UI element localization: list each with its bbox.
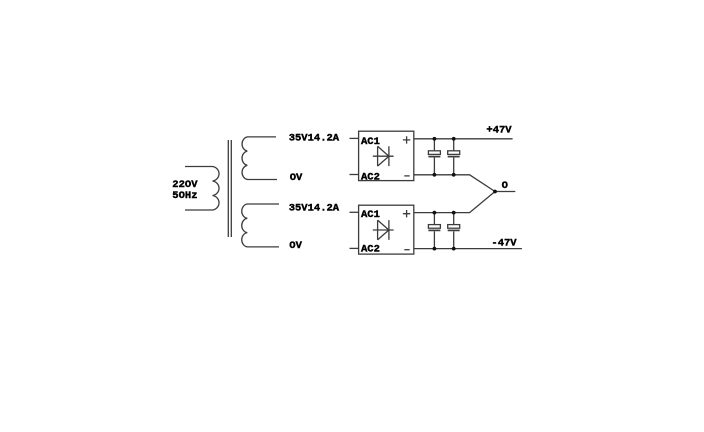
bridge rectifier U2 plus pin symbol <box>403 210 410 217</box>
transformer T1 secondary winding S2 (bottom) <box>242 204 279 247</box>
junction dot C2 top <box>452 137 456 141</box>
bridge rectifier U1 internal diode symbol <box>373 146 394 166</box>
capacitor C2 <box>448 139 460 175</box>
svg-text:22OV: 22OV <box>172 179 198 191</box>
svg-text:5OHz: 5OHz <box>172 190 197 202</box>
transformer T1 primary winding <box>185 167 219 211</box>
svg-text:-47V: -47V <box>491 238 517 250</box>
capacitor C3 <box>428 213 440 249</box>
wire U2 plus output to node 0 <box>414 192 495 213</box>
junction dot C3 top <box>433 211 437 215</box>
wire -47V rail from U2 minus output <box>414 248 522 250</box>
bridge rectifier U2 internal diode symbol <box>373 220 394 240</box>
capacitor C1 <box>428 139 440 175</box>
junction dot C4 top <box>452 211 456 215</box>
bridge rectifier U2 minus pin symbol <box>404 249 409 251</box>
wire U1 minus output to node 0 <box>414 175 495 192</box>
svg-text:35V14.2A: 35V14.2A <box>289 202 340 214</box>
junction dot C4 bottom <box>452 247 456 251</box>
svg-text:AC1: AC1 <box>361 136 380 148</box>
wire stub U1 AC2 input <box>350 174 359 176</box>
wire stub U2 AC2 input <box>350 247 359 249</box>
transformer T1 core <box>228 140 231 237</box>
svg-text:OV: OV <box>290 172 303 184</box>
bridge rectifier U1 box <box>359 131 414 180</box>
svg-text:OV: OV <box>289 240 302 252</box>
capacitor C4 <box>448 213 460 249</box>
svg-text:AC2: AC2 <box>361 244 380 256</box>
wire stub U1 AC1 input <box>350 137 359 139</box>
svg-text:O: O <box>502 180 508 192</box>
wire node 0 output lead <box>495 191 515 193</box>
svg-text:+47V: +47V <box>486 125 512 137</box>
junction dot C1 top <box>433 137 437 141</box>
junction dot C3 bottom <box>433 247 437 251</box>
junction dot C1 bottom <box>433 173 437 177</box>
wire stub U2 AC1 input <box>350 211 359 213</box>
wire +47V rail from U1 plus output <box>414 138 513 140</box>
bridge rectifier U1 minus pin symbol <box>404 175 409 177</box>
svg-text:35V14.2A: 35V14.2A <box>289 132 340 144</box>
bridge rectifier U2 box <box>359 205 414 254</box>
node 0 junction dot <box>493 190 497 194</box>
bridge rectifier U1 plus pin symbol <box>403 136 410 143</box>
junction dot C2 bottom <box>452 173 456 177</box>
transformer T1 secondary winding S1 (top) <box>242 137 277 180</box>
svg-text:AC1: AC1 <box>361 209 380 221</box>
svg-text:AC2: AC2 <box>361 171 380 183</box>
